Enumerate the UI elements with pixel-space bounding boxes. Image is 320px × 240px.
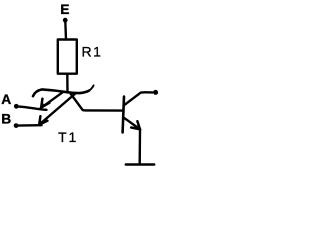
- svg-text:E: E: [60, 2, 69, 17]
- T1 emitter 2 wire: [39, 93, 75, 124]
- ground: [126, 163, 154, 166]
- T2 collector wire: [125, 92, 153, 104]
- node E dot: [63, 18, 68, 23]
- wire T2 emitter to ground: [138, 130, 141, 164]
- node B dot: [14, 123, 19, 128]
- svg-text:A: A: [1, 92, 11, 107]
- transistor T1 base bar: [33, 89, 89, 96]
- node output dot: [153, 90, 158, 95]
- wire R1 to T1 base: [66, 74, 69, 92]
- resistor R1: [58, 40, 77, 74]
- wire E to R1: [64, 21, 67, 40]
- wire A to T1 emitter 1: [17, 106, 47, 109]
- svg-text:T1: T1: [58, 129, 78, 145]
- wire B to T1 emitter 2: [17, 124, 42, 127]
- T1 emitter 1 arrowhead: [41, 99, 49, 108]
- T2 emitter wire: [125, 118, 140, 129]
- transistor T2 base bar: [123, 97, 124, 133]
- svg-text:R1: R1: [82, 44, 103, 60]
- T1 emitter 1 wire: [41, 92, 64, 108]
- svg-text:B: B: [1, 112, 11, 127]
- T2 emitter arrowhead: [131, 121, 140, 129]
- T1 emitter 2 arrowhead: [39, 116, 47, 124]
- node A dot: [14, 104, 19, 109]
- wire T1 collector to T2 base: [71, 94, 123, 111]
